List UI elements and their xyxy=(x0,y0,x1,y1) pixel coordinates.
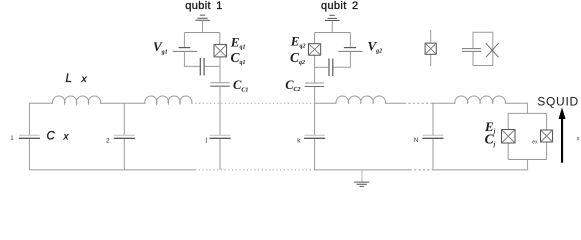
josephson junction right xyxy=(541,130,553,142)
svg-text:Cq1: Cq1 xyxy=(231,50,246,66)
capacitor qubit2 gate xyxy=(328,59,330,77)
svg-text:qubit 1: qubit 1 xyxy=(185,0,222,12)
wire bottom rail solid left xyxy=(29,169,195,171)
svg-text:C: C xyxy=(47,131,56,143)
wire rail N to L4 xyxy=(432,102,455,104)
legend junction X xyxy=(486,43,499,57)
svg-text:s: s xyxy=(577,136,580,142)
inductor L4 xyxy=(455,96,505,104)
svg-text:j: j xyxy=(205,137,207,144)
ground qubit1 xyxy=(195,15,209,20)
capacitor node1 C x xyxy=(19,134,40,136)
legend junction symbol xyxy=(430,30,432,66)
wire dashed rail before N xyxy=(404,102,432,104)
inductor L1 xyxy=(53,96,101,104)
svg-text:SQUID: SQUID xyxy=(537,95,579,109)
inductor L2 xyxy=(145,96,192,104)
qubit1 JJ branch wire xyxy=(219,33,221,83)
voltage source Vg1 xyxy=(183,33,185,48)
node 2 vertical wire xyxy=(123,103,125,170)
capacitor qubit1 gate xyxy=(199,58,201,76)
arrow flux xyxy=(559,108,566,163)
SQUID loop bottom xyxy=(508,159,546,161)
josephson junction Ej left xyxy=(502,130,516,144)
svg-text:1: 1 xyxy=(10,135,14,142)
svg-text:2: 2 xyxy=(106,137,110,144)
svg-text:x: x xyxy=(63,132,70,143)
qubit1 loop top rail xyxy=(184,32,219,34)
svg-text:CC2: CC2 xyxy=(285,78,300,93)
josephson junction qubit1 xyxy=(214,44,227,57)
ground qubit2 xyxy=(325,15,340,20)
wire left edge node 1 xyxy=(29,103,52,170)
wire rail k to L3 xyxy=(314,102,336,104)
node k vertical wire xyxy=(314,87,316,170)
qubit2 JJ branch wire xyxy=(314,33,316,84)
SQUID loop top xyxy=(508,112,546,114)
wire bottom rail solid mid xyxy=(314,169,409,171)
capacitor CC2 xyxy=(305,82,324,84)
svg-text:Cq2: Cq2 xyxy=(290,50,305,66)
wire bottom rail right xyxy=(432,169,528,171)
svg-text:Vg1: Vg1 xyxy=(153,39,168,55)
SQUID left branch xyxy=(507,113,509,159)
svg-text:ex: ex xyxy=(532,139,538,145)
wire rail after L3 xyxy=(385,102,404,104)
wire rail to SQUID feed xyxy=(505,103,527,113)
svg-text:L: L xyxy=(66,73,72,85)
capacitor CC1 xyxy=(211,82,230,84)
svg-text:Eq2: Eq2 xyxy=(290,33,306,49)
svg-text:k: k xyxy=(297,138,301,145)
inductor L3 xyxy=(336,96,386,104)
SQUID right branch xyxy=(546,113,548,159)
wire dotted rail j-k xyxy=(192,102,315,104)
legend equivalent loop xyxy=(473,32,493,65)
capacitor node N xyxy=(423,134,444,136)
voltage source Vg2 xyxy=(349,33,351,48)
svg-text:Eq1: Eq1 xyxy=(230,34,246,50)
legend capacitor plates xyxy=(462,49,481,52)
ground bottom center xyxy=(361,170,363,182)
node j vertical wire xyxy=(219,86,221,170)
josephson junction qubit2 xyxy=(309,44,321,56)
SQUID bottom tap xyxy=(527,160,529,170)
svg-text:CC1: CC1 xyxy=(233,78,248,93)
svg-text:qubit 2: qubit 2 xyxy=(321,0,358,12)
svg-text:x: x xyxy=(81,73,88,85)
capacitor node2 xyxy=(114,134,135,136)
wire bottom rail dotted xyxy=(195,169,314,171)
svg-text:N: N xyxy=(414,137,419,144)
wire rail node2 xyxy=(100,102,145,104)
wire bottom rail dashed xyxy=(410,169,432,171)
svg-text:Vg2: Vg2 xyxy=(368,38,383,54)
node N vertical wire xyxy=(432,103,434,170)
capacitor node j xyxy=(210,134,231,136)
capacitor node k xyxy=(304,134,325,136)
qubit2 loop top rail xyxy=(315,32,351,34)
